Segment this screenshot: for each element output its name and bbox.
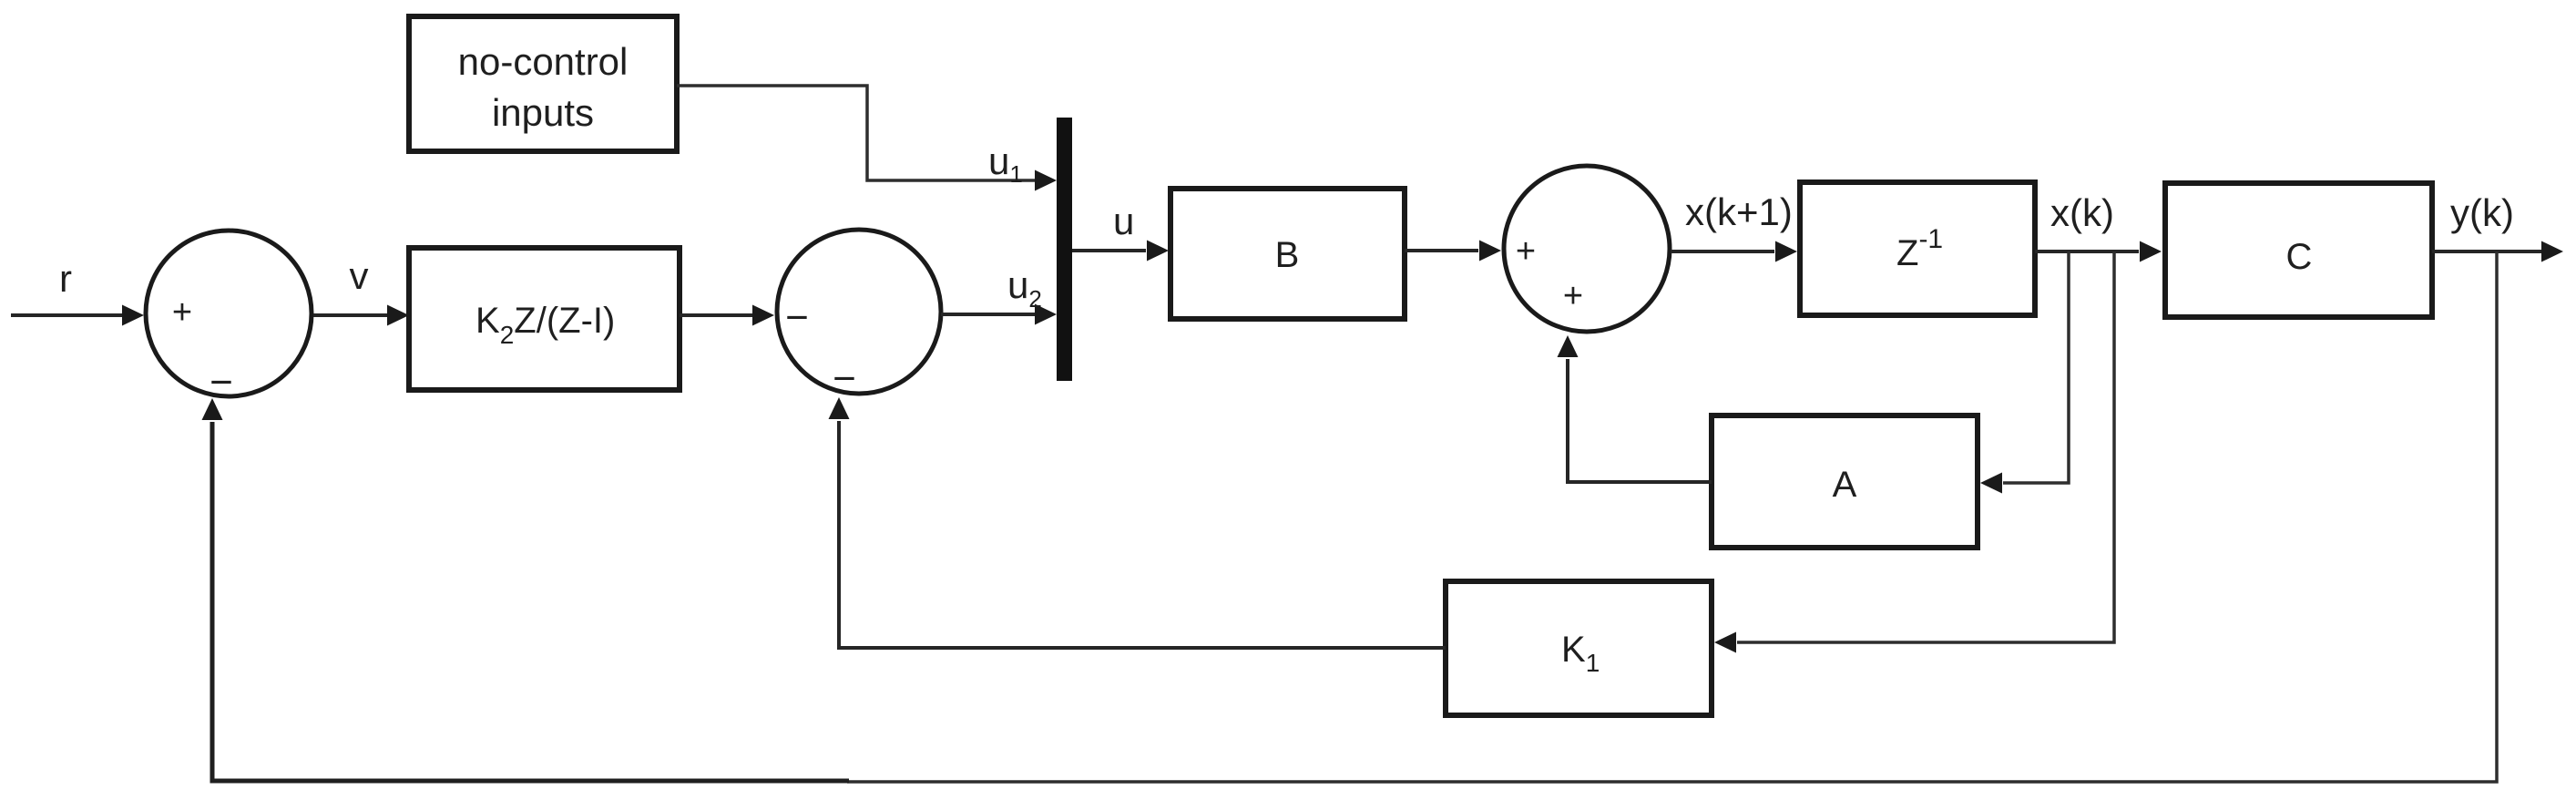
svg-text:inputs: inputs xyxy=(492,91,594,134)
wire u: mux to B xyxy=(1072,241,1169,262)
block B xyxy=(1170,189,1405,319)
wire r input with arrow xyxy=(11,305,144,326)
block Z-1 xyxy=(1800,182,2035,315)
svg-text:u: u xyxy=(1113,200,1134,242)
wire x(k) branch to K1 xyxy=(1714,251,2114,653)
block C xyxy=(2165,183,2432,317)
wire no-control outputs to mux (u1) xyxy=(677,86,1057,191)
svg-text:y(k): y(k) xyxy=(2450,191,2514,234)
wire x(k): Z-1 to C xyxy=(2035,241,2162,262)
svg-text:C: C xyxy=(2286,237,2313,277)
wire K1 to S2 xyxy=(829,397,1446,648)
wire bottom feedback to S1 xyxy=(202,398,850,781)
svg-text:−: − xyxy=(785,295,809,340)
summing junction S1 (r - feedback) xyxy=(146,231,312,405)
summing junction S3 (+ +) xyxy=(1504,166,1670,332)
svg-text:+: + xyxy=(1563,277,1583,315)
block A xyxy=(1712,415,1978,548)
wire u2: S2 to mux xyxy=(941,304,1057,325)
wire x(k) branch to A xyxy=(1980,251,2069,494)
wire K2 block to S2 xyxy=(680,305,774,326)
wire y(k) output xyxy=(2432,241,2563,262)
svg-text:−: − xyxy=(210,360,233,405)
svg-text:B: B xyxy=(1275,235,1300,275)
svg-text:A: A xyxy=(1833,465,1857,505)
block no-control inputs xyxy=(409,16,677,151)
svg-text:+: + xyxy=(1516,232,1536,271)
svg-text:r: r xyxy=(59,257,72,300)
wire v: S1 to K2 block xyxy=(313,305,409,326)
wire A to S3 xyxy=(1558,335,1712,482)
svg-text:x(k+1): x(k+1) xyxy=(1685,190,1793,233)
svg-text:no-control: no-control xyxy=(458,40,629,83)
block K1 xyxy=(1446,581,1712,715)
wire y(k) feedback drop and bottom run xyxy=(847,251,2497,782)
summing junction S2 (- -) xyxy=(777,230,941,401)
svg-text:−: − xyxy=(833,356,856,401)
wire x(k+1): S3 to Z-1 xyxy=(1671,241,1797,262)
svg-text:v: v xyxy=(350,254,369,297)
wire B to S3 xyxy=(1405,241,1501,262)
svg-text:+: + xyxy=(172,293,192,332)
svg-text:x(k): x(k) xyxy=(2050,191,2114,234)
mux bar xyxy=(1057,118,1072,381)
block K2Z/(Z-I) xyxy=(409,248,680,390)
